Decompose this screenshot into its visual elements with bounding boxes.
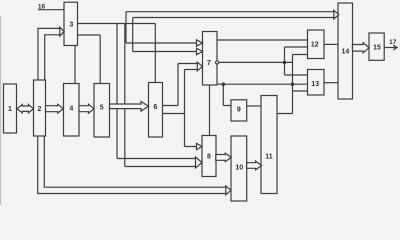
arrow block4 to block5 [79,104,94,113]
wire block3 right to block6 top [78,24,156,83]
wire output 17 from block15 [384,47,396,49]
bus from top rail down to block8 (hollow) [117,24,196,167]
block 5 [94,84,110,138]
bus block6 up to block7 (hollow elbow) [163,64,198,114]
wire block3 bottom to block4 top [74,46,76,84]
svg-text:1: 1 [8,106,12,113]
arrowhead into block8 lower [196,157,203,168]
arrow block2 to block4 [46,104,64,113]
arrowhead into block10 lower [226,186,231,195]
bus block2 up to block3 (hollow elbow) [38,28,60,80]
arrowhead into block14 [334,10,339,19]
svg-text:8: 8 [207,154,211,161]
wire 16 lead-in to block 3 [38,9,64,11]
svg-text:4: 4 [69,106,73,113]
block 10 [231,136,247,201]
block 7 [203,32,218,86]
svg-text:7: 7 [207,60,211,67]
svg-text:13: 13 [311,81,319,88]
arrowhead into block7 upper [197,40,203,46]
scan edge artifact left [0,16,2,205]
block 11 [261,96,277,194]
arrowhead into block7 lower [197,62,202,71]
block 2 [34,80,46,136]
junction on lower block7 wire at block13 branch [283,61,285,63]
arrowhead into block8 upper [197,143,203,149]
block 15 [369,33,384,60]
svg-text:3: 3 [69,21,73,28]
wire block13 to block14 [324,82,338,84]
block 4 [64,84,80,137]
svg-text:12: 12 [311,41,319,48]
svg-text:15: 15 [373,45,381,52]
svg-text:10: 10 [235,164,243,171]
arrowhead into block7 second [197,48,203,54]
svg-text:6: 6 [154,104,158,111]
arrow block8 to block10 [216,153,231,161]
svg-text:16: 16 [38,4,46,11]
wire vertical drop to block7 second arrow [133,18,197,52]
block 3 [64,2,78,45]
wire branch line C to block9 [223,84,231,105]
bus block2 down to block10 (hollow) [38,136,226,194]
block 1 [4,84,17,133]
arrow block14 to block15 [353,43,370,53]
svg-text:14: 14 [342,48,350,55]
block 9 [231,100,247,121]
svg-text:5: 5 [100,105,104,112]
block 13 [308,70,325,96]
wire block7 bottom line C [217,83,308,85]
junction on line C at block9 branch [222,83,224,85]
svg-text:9: 9 [237,106,241,113]
wire block6 down to block8 upper arrow [185,114,197,147]
block 12 [308,30,325,59]
arrow block5 to block6 [110,102,149,112]
wire block12 to block14 [324,43,338,45]
block 6 [149,83,163,138]
wire block3 right to block5 top [78,35,101,84]
svg-text:2: 2 [38,106,42,113]
arrow block1 to block2 double-headed [17,105,34,113]
arrow block10 to block11 [247,161,262,170]
svg-text:11: 11 [265,153,273,160]
arrowhead output 17 [393,45,397,50]
wire block9 to block11 [247,105,261,107]
block 14 [338,3,353,99]
wire vertical drop to block7 upper arrow [126,12,197,43]
block 8 [202,136,216,177]
svg-text:17: 17 [389,39,397,46]
wire block7 to block12 upper [217,39,308,41]
arrowhead into block3 [60,27,64,36]
wire block7 to block12 lower (with circle tap) [216,61,219,64]
bus top to block14 (hollow pair) [126,12,334,18]
junction on line C at X2 riser [291,83,293,85]
wire branch line C to block13 lower and block11 right [277,55,308,114]
wire branch to block13 upper [285,47,308,75]
wire block7 bottom to block8 top [209,85,211,136]
